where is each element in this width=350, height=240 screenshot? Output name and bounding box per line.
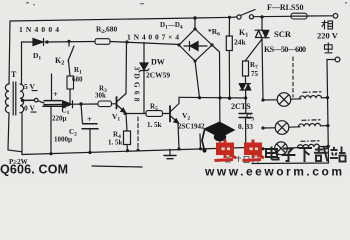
label neutral zhong — [325, 43, 333, 53]
terminal neutral — [335, 57, 340, 62]
svg-text:5 V: 5 V — [24, 82, 35, 91]
label 220V — [317, 31, 339, 41]
svg-text:1. 5k: 1. 5k — [108, 139, 123, 147]
label R7 75 — [250, 61, 259, 78]
watermark chong character 2 red — [243, 140, 265, 161]
diode D2 — [63, 101, 99, 108]
label V1 — [112, 112, 120, 123]
svg-text:680: 680 — [72, 76, 83, 84]
bridge rectifier D1-D4 — [177, 27, 213, 62]
node lamp bus 3 — [261, 147, 264, 150]
watermark char xia — [299, 148, 313, 162]
lamp 2 — [263, 121, 289, 135]
capacitor C3 0.33 — [239, 114, 252, 148]
svg-text:R2,680: R2,680 — [96, 25, 118, 36]
transformer T1 — [5, 82, 23, 115]
label R3 30k — [95, 85, 107, 100]
wire V1 emitter node — [125, 112, 146, 114]
label P>=2W — [9, 158, 28, 166]
label 5V tap — [24, 82, 38, 91]
label KS-50-600 — [264, 45, 306, 54]
label + C1 — [53, 89, 58, 99]
wire bridge right lead down — [212, 45, 222, 150]
label 3DG68 vertical — [133, 67, 142, 102]
label K2 — [55, 56, 64, 67]
svg-text:T: T — [11, 70, 17, 79]
label F-RLS50 — [267, 3, 303, 12]
svg-text:30k: 30k — [95, 92, 106, 100]
svg-text:KS—50—600: KS—50—600 — [264, 45, 306, 54]
label *R6 — [208, 27, 220, 38]
label 0.33 — [238, 122, 253, 131]
wire secondary top lead — [21, 42, 23, 84]
ballast L1 — [291, 92, 329, 99]
zener DW 2CW59 — [139, 43, 149, 114]
wire top rail — [10, 16, 333, 21]
label R4 1.5k — [108, 131, 123, 147]
label K1 — [239, 28, 248, 39]
svg-text:F—RLS50: F—RLS50 — [267, 3, 303, 12]
svg-text:0. 33: 0. 33 — [238, 122, 253, 131]
wire common bottom rail — [22, 148, 246, 155]
node dot K2 branch — [67, 40, 70, 43]
wire mains return fragment — [92, 166, 142, 167]
svg-text:1000µ: 1000µ — [54, 136, 72, 144]
watermark Q606.COM — [0, 163, 68, 177]
wire V2 emitter to rail — [177, 123, 180, 151]
wire left edge (mains to primary) — [9, 21, 10, 84]
transistor V1 3DG68 — [117, 94, 127, 113]
svg-text:1. 5k: 1. 5k — [147, 121, 162, 129]
svg-text:2CTS: 2CTS — [231, 102, 251, 111]
watermark char zai — [314, 147, 329, 162]
fuse F-RLS50 — [291, 13, 307, 19]
label R1 680 — [72, 66, 83, 84]
resistor R4 1.5k vertical — [124, 112, 131, 152]
wire neutral bus right — [252, 60, 335, 164]
capacitor C2 1000u — [81, 104, 98, 154]
label 24k — [234, 38, 247, 47]
ballast L3 — [287, 141, 329, 148]
label C1 220u — [52, 107, 70, 123]
label 1N4007x4 — [127, 33, 179, 42]
wire V1 collector — [125, 40, 128, 93]
diode D1 1N4004 — [33, 39, 44, 46]
ballast L2 — [289, 120, 330, 127]
wire primary bottom lead — [8, 113, 22, 152]
wire d.c. rail y42 — [22, 42, 181, 45]
watermark char dian — [266, 147, 279, 160]
label C3 — [246, 112, 254, 123]
label 2CW59 — [146, 71, 170, 80]
caption fragment under watermark — [225, 156, 258, 163]
lamp 1 — [263, 93, 291, 107]
label D1 — [33, 51, 41, 62]
svg-text:+: + — [87, 114, 92, 124]
transistor V2 2SC1942 — [170, 104, 179, 124]
resistor R5 1.5k horizontal — [146, 111, 170, 117]
label T — [11, 70, 17, 79]
watermark graduation cap — [202, 122, 236, 153]
resistor R1 680 vertical — [67, 76, 74, 104]
label 2SC1942 — [178, 123, 205, 131]
svg-text:2CW59: 2CW59 — [146, 71, 170, 80]
svg-text:75: 75 — [251, 70, 259, 78]
label C2 1000u — [54, 128, 77, 144]
resistor R7 75 vertical — [243, 61, 249, 84]
wire segment under watermark — [199, 134, 202, 150]
wire V2 collector — [178, 97, 180, 103]
svg-text:SCR: SCR — [274, 29, 292, 39]
ground symbol — [164, 149, 176, 158]
label D1-D4 — [160, 21, 183, 31]
watermark char zhan — [330, 147, 346, 162]
label 2CTS — [231, 102, 251, 111]
svg-text:DW: DW — [151, 58, 165, 67]
relay contact K2 — [68, 41, 74, 76]
resistor R3 30k horizontal — [98, 101, 116, 107]
dashed drop line — [137, 117, 140, 152]
capacitor C1 220u — [43, 74, 62, 155]
relay contact K1 — [237, 10, 255, 20]
wire collector to bridge bottom — [179, 96, 246, 99]
wire bridge top lead — [193, 16, 196, 29]
wire bridge bottom lead — [195, 61, 200, 98]
node lamp bus 2 — [261, 126, 264, 129]
label R5 1.5k — [147, 103, 162, 130]
watermark char zi — [282, 149, 296, 162]
watermark chong character 1 red — [215, 140, 237, 161]
label V2 — [182, 111, 190, 122]
wire secondary return — [21, 112, 23, 155]
node dot after D1 — [45, 40, 48, 43]
svg-text:220µ: 220µ — [52, 115, 67, 123]
diac 2CTS — [239, 84, 250, 114]
label phase xiang — [322, 21, 333, 30]
terminal phase — [333, 14, 338, 19]
label R2 680 — [96, 25, 118, 36]
label 0V tap — [24, 104, 37, 113]
dashed link line — [292, 57, 294, 97]
label DW — [151, 58, 165, 67]
svg-text:24k: 24k — [234, 38, 247, 47]
node dot — [79, 102, 82, 105]
node lamp bus 1 — [261, 98, 264, 101]
watermark www.eeworm.com — [204, 165, 342, 179]
wire secondary centre tap — [21, 98, 44, 103]
speck noise — [26, 2, 347, 5]
label 1N4004 — [19, 25, 59, 34]
svg-text:2SC1942: 2SC1942 — [178, 123, 205, 131]
lamp 3 — [263, 142, 287, 155]
resistor R2 680 horizontal — [95, 39, 110, 45]
svg-text:0 V: 0 V — [24, 104, 35, 113]
thyristor SCR KS-50-600 — [246, 15, 270, 100]
label + C2 — [87, 114, 92, 124]
svg-text:Q606. COM: Q606. COM — [0, 163, 68, 177]
svg-text:www.eeworm.com: www.eeworm.com — [204, 165, 342, 178]
svg-text:+: + — [53, 89, 58, 99]
resistor R6 24k vertical — [226, 16, 232, 100]
label SCR — [274, 29, 292, 39]
svg-text:220 V: 220 V — [317, 31, 339, 41]
